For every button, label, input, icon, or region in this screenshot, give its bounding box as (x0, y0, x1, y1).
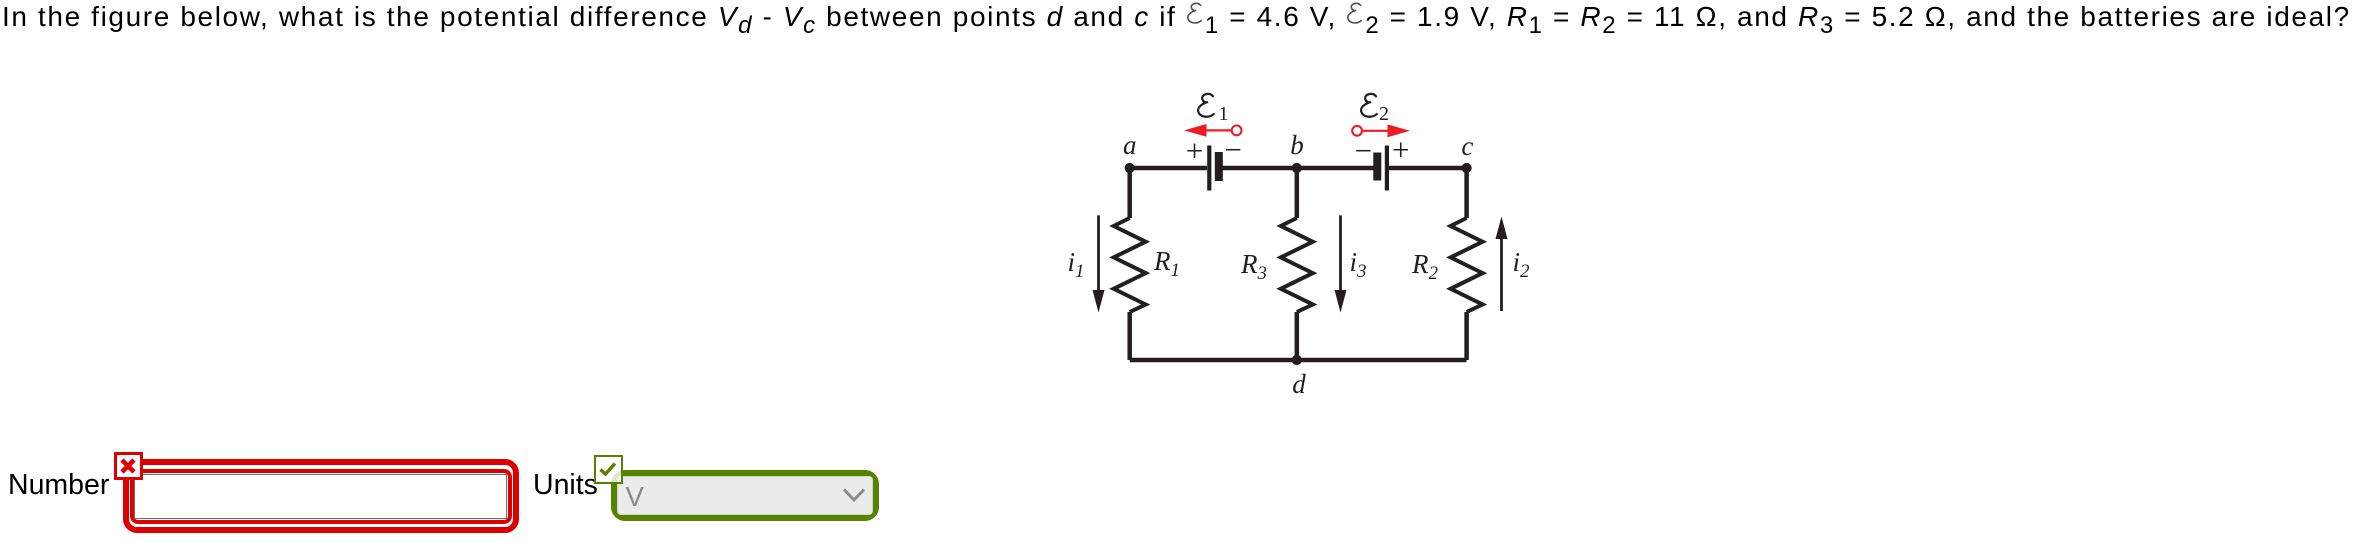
svg-text:i3: i3 (1349, 247, 1366, 282)
wire battery E2 to node c (1389, 166, 1467, 171)
svg-text:a: a (1123, 130, 1137, 160)
wire top-left a to battery E1 (1130, 166, 1207, 171)
units select control (617, 476, 873, 515)
battery E1 negative plate (short thick) (1215, 152, 1223, 181)
svg-text:+: + (1392, 132, 1409, 167)
units green outer border (correct) (611, 470, 879, 521)
emf E2 direction arrow (red, pointing right) (1352, 124, 1410, 137)
correct check badge (594, 455, 622, 483)
resistor R2 (1451, 218, 1483, 312)
svg-text:i2: i2 (1512, 247, 1530, 282)
wire left branch upper (a to R1) (1127, 168, 1132, 218)
battery E1 positive plate (long) (1207, 146, 1211, 191)
emf E1 direction arrow (red, pointing left) (1184, 124, 1242, 137)
svg-text:i1: i1 (1067, 247, 1084, 282)
wire left branch lower (R1 to bottom) (1127, 312, 1132, 360)
wire node b to battery E2 (1297, 166, 1374, 171)
wire bottom rail (1130, 358, 1467, 363)
label E1 (script E with subscript 1) (1198, 94, 1228, 125)
current arrow i2 (up) (1496, 217, 1508, 312)
number label (8, 470, 109, 500)
wire middle branch lower (R3 to d) (1295, 312, 1300, 360)
svg-text:c: c (1461, 131, 1473, 161)
resistor R3 (1281, 218, 1313, 312)
node b junction dot (1292, 163, 1302, 173)
svg-text:+: + (1186, 133, 1203, 168)
incorrect X badge (114, 452, 143, 481)
question text (2, 1, 2351, 33)
number input red inner border (130, 469, 512, 524)
units label (533, 470, 598, 500)
battery E2 positive plate (long) (1385, 146, 1389, 191)
svg-text:2: 2 (1379, 103, 1389, 125)
wire right branch upper (c to R2) (1464, 168, 1469, 218)
svg-text:d: d (1292, 369, 1306, 399)
wire right branch lower (R2 to bottom) (1464, 312, 1469, 360)
svg-text:R3: R3 (1240, 249, 1267, 284)
number input red outer border (incorrect) (123, 459, 519, 533)
svg-text:1: 1 (1219, 103, 1229, 125)
resistor R1 (1114, 218, 1146, 312)
current arrow i3 (down) (1335, 215, 1347, 312)
battery E2 negative plate (short thick) (1373, 153, 1381, 181)
current arrow i1 (down) (1093, 215, 1105, 312)
node c junction dot (1462, 163, 1472, 173)
units select value V (626, 483, 644, 511)
svg-text:R1: R1 (1153, 246, 1180, 281)
wire battery E1 to node b (1223, 166, 1297, 171)
units select chevron (841, 487, 867, 505)
svg-text:−: − (1355, 133, 1372, 168)
node d junction dot (1292, 355, 1302, 365)
svg-text:−: − (1224, 132, 1241, 167)
svg-text:R2: R2 (1411, 249, 1439, 284)
node a junction dot (1125, 163, 1135, 173)
number input field (134, 474, 507, 519)
label E2 (script E with subscript 2) (1361, 94, 1389, 125)
svg-text:b: b (1290, 130, 1304, 160)
wire middle branch upper (b to R3) (1295, 168, 1300, 218)
